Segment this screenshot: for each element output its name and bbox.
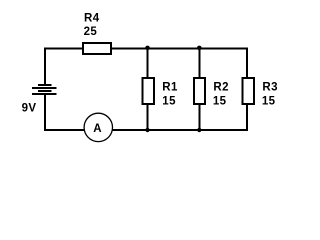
battery B1 plate long bbox=[32, 87, 56, 89]
wire top horizontal from left corner to top-right corner bbox=[44, 48, 248, 50]
svg-text:R1: R1 bbox=[162, 82, 178, 94]
wire branch 1 vertical upper bbox=[147, 49, 149, 79]
resistor R2 body bbox=[194, 78, 205, 104]
junction node bottom branch 2 bbox=[197, 128, 201, 132]
battery B1 plate long bottom bbox=[32, 93, 56, 95]
wire branch 1 vertical lower bbox=[147, 104, 149, 130]
resistor R3 body bbox=[242, 78, 254, 104]
wire branch 3 vertical lower bbox=[246, 104, 248, 131]
resistor R1 body bbox=[142, 78, 154, 104]
battery B1 plate short top bbox=[38, 84, 51, 86]
svg-text:15: 15 bbox=[262, 96, 276, 108]
wire branch 3 vertical upper (right side) bbox=[246, 48, 248, 79]
battery B1 plate short bbox=[38, 90, 51, 92]
junction node top branch 2 bbox=[197, 46, 202, 51]
svg-text:A: A bbox=[93, 123, 102, 135]
svg-text:R2: R2 bbox=[213, 82, 229, 94]
junction node top branch 1 bbox=[145, 46, 150, 51]
wire branch 2 vertical lower bbox=[198, 104, 200, 130]
junction node bottom branch 1 bbox=[145, 128, 149, 132]
svg-text:R3: R3 bbox=[262, 82, 278, 94]
svg-text:15: 15 bbox=[162, 96, 176, 108]
resistor R4 body bbox=[83, 43, 111, 54]
svg-text:15: 15 bbox=[213, 96, 227, 108]
wire left vertical upper (battery top lead) bbox=[44, 48, 46, 85]
wire left vertical lower (battery bottom lead) bbox=[44, 94, 46, 131]
wire bottom horizontal from left corner to bottom-right corner bbox=[44, 129, 248, 131]
svg-text:25: 25 bbox=[84, 26, 98, 38]
svg-text:R4: R4 bbox=[84, 12, 100, 24]
ammeter A1 body circle bbox=[84, 113, 112, 141]
wire branch 2 vertical upper bbox=[198, 49, 200, 79]
svg-text:9V: 9V bbox=[22, 102, 37, 114]
